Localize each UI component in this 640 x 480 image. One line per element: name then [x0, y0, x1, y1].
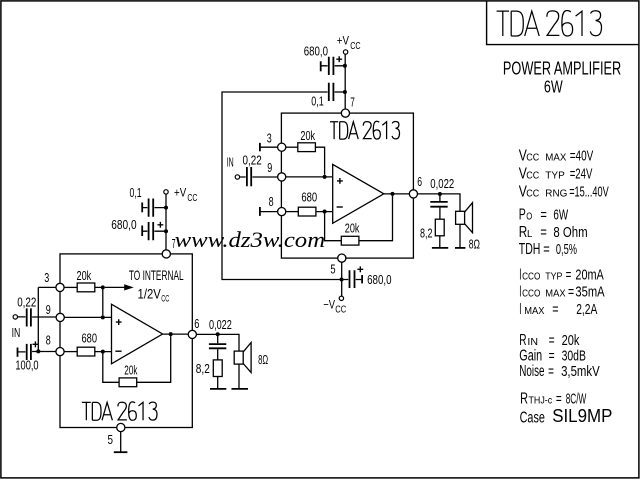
plus input mark upper: [337, 178, 343, 184]
wire R2 to -input: [316, 211, 332, 213]
junction zobel lower: [216, 332, 220, 336]
capacitor C7 680,0 plates: [149, 222, 154, 240]
svg-text:IN: IN: [12, 326, 21, 340]
wire pin8 to R2: [286, 211, 298, 213]
wire pin5 to -Vcc upper: [341, 262, 343, 296]
svg-text:680,0: 680,0: [367, 273, 391, 287]
junction zobel upper: [438, 192, 442, 196]
resistor R2 680 upper: [298, 207, 316, 216]
svg-text:PO=6W: PO=6W: [519, 206, 569, 223]
op-amp triangle lower: [112, 304, 163, 364]
resistor R8 8,2 lower: [213, 360, 222, 377]
wire pin3 stub lower: [38, 286, 56, 288]
svg-text:680,0: 680,0: [111, 218, 136, 232]
svg-text:0,22: 0,22: [243, 153, 262, 167]
capacitor C8 0,22 plates: [27, 308, 31, 326]
ground zobel lower: [210, 388, 226, 390]
minus input mark upper: [337, 206, 343, 208]
title text TDA2613: [497, 11, 602, 37]
ground pin5 lower: [114, 451, 128, 453]
wire 0,1 to -Vcc net: [222, 92, 340, 280]
svg-text:ICCOTYP=20mA: ICCOTYP=20mA: [519, 266, 604, 283]
wire R1 to +input: [315, 147, 324, 175]
svg-text:20k: 20k: [77, 269, 92, 283]
svg-text:VCCMAX=40V: VCCMAX=40V: [519, 147, 594, 164]
terminal +Vcc lower: [164, 190, 168, 194]
node pin 5 lower: [117, 423, 125, 431]
svg-text:CC: CC: [350, 40, 361, 52]
wire +Vcc rail upper: [344, 54, 346, 109]
svg-text:0,1: 0,1: [130, 186, 142, 200]
plus sign C9: [33, 341, 39, 347]
node pin 3 upper: [278, 143, 286, 151]
svg-text:7: 7: [172, 237, 176, 251]
wire pin3 down to cap junction: [37, 287, 39, 351]
op-amp U2 IC box TDA2613 lower: [60, 254, 192, 428]
svg-text:8: 8: [269, 195, 274, 209]
svg-text:5: 5: [108, 433, 114, 447]
plus sign C7: [158, 222, 164, 228]
svg-text:1/2V: 1/2V: [138, 286, 162, 302]
junction -input upper: [323, 210, 327, 214]
wire C4 to R4: [439, 208, 441, 220]
junction -Vcc net upper: [340, 278, 344, 282]
node pin 7 upper: [341, 109, 349, 117]
svg-text:RL=8 Ohm: RL=8 Ohm: [519, 224, 588, 241]
svg-text:9: 9: [267, 161, 272, 175]
junction +input upper: [323, 175, 327, 179]
speaker LS1 upper: [456, 203, 473, 233]
capacitor C6 0,1 plates: [149, 199, 154, 217]
wire pin3 stub upper: [260, 146, 277, 148]
svg-text:POWER AMPLIFIER: POWER AMPLIFIER: [503, 58, 621, 79]
wire C6 leads: [143, 207, 165, 209]
node pin 3 lower: [56, 283, 64, 291]
wire feedback upper: [325, 196, 393, 241]
plus input mark lower: [116, 319, 122, 325]
wire R4 to ground: [439, 236, 441, 248]
resistor R7 20k feedback lower: [119, 378, 137, 387]
wire pin5 ground lower: [120, 432, 122, 453]
junction bias arrow lower: [101, 285, 105, 289]
svg-text:ICCOMAX=35mA: ICCOMAX=35mA: [519, 284, 604, 301]
svg-text:20k: 20k: [124, 363, 138, 377]
resistor R1 20k upper: [298, 143, 316, 152]
svg-text:9: 9: [46, 303, 51, 317]
svg-text:680,0: 680,0: [304, 45, 328, 59]
capacitor C2 0,1 plates: [329, 83, 334, 101]
IC label TDA2613 upper: [330, 121, 400, 139]
svg-text:0,022: 0,022: [209, 318, 232, 332]
resistor R4 8,2 upper: [435, 219, 444, 236]
svg-text:Noise=3,5mkV: Noise=3,5mkV: [519, 363, 599, 380]
node pin 6 lower: [188, 330, 196, 338]
terminal tick C1: [320, 61, 322, 71]
junction -input lower: [101, 350, 105, 354]
wire R8 to ground: [217, 377, 219, 389]
svg-text:7: 7: [350, 95, 355, 109]
wire speaker to ground upper: [459, 224, 461, 248]
terminal input upper: [235, 175, 239, 179]
svg-text:8,2: 8,2: [196, 362, 210, 376]
ground speaker lower: [232, 388, 249, 390]
svg-text:+V: +V: [174, 186, 186, 200]
terminal +Vcc upper: [343, 50, 347, 54]
svg-text:TO INTERNAL: TO INTERNAL: [129, 267, 184, 283]
svg-text:8Ω: 8Ω: [469, 237, 480, 251]
wire R6 to -input lower: [95, 351, 111, 353]
wire speaker to ground lower: [238, 364, 240, 389]
wire to C4: [439, 194, 441, 201]
wire input to pin9 lower: [18, 316, 56, 318]
node pin 6 upper: [409, 190, 417, 198]
svg-text:+V: +V: [337, 34, 349, 48]
wire C2 right lead: [335, 91, 344, 93]
op-amp U1 IC box TDA2613 upper: [281, 113, 413, 258]
wire feedback lower: [103, 336, 171, 382]
capacitor C9 100,0 plates: [27, 344, 31, 360]
svg-text:6W: 6W: [544, 77, 563, 97]
capacitor C3 0,22 plates: [247, 167, 251, 186]
svg-text:6: 6: [194, 317, 199, 331]
junction 0,1/rail upper: [343, 90, 347, 94]
svg-text:0,1: 0,1: [311, 95, 324, 109]
svg-text:CC: CC: [187, 192, 197, 204]
node pin 7 lower: [162, 250, 170, 258]
svg-text:IN: IN: [227, 156, 234, 170]
capacitor C5 680,0 plates: [350, 270, 355, 288]
node pin 9 lower: [56, 313, 64, 321]
junction pin3/C9/pin8: [36, 349, 40, 353]
svg-text:0,022: 0,022: [430, 177, 454, 191]
wire C7 leads: [143, 230, 165, 232]
svg-text:Gain=30dB: Gain=30dB: [519, 347, 586, 364]
resistor R6 680 lower: [77, 347, 95, 356]
plus sign C5: [357, 266, 363, 272]
wire C5 leads: [344, 279, 362, 281]
terminal tick C9: [17, 348, 19, 357]
title box: [487, 1, 639, 45]
svg-text:8: 8: [46, 334, 51, 348]
IC label TDA2613 lower: [82, 402, 157, 420]
node pin 5 upper: [338, 254, 346, 262]
svg-text:20k: 20k: [345, 222, 360, 236]
svg-text:100,0: 100,0: [15, 359, 38, 373]
svg-text:5: 5: [330, 262, 335, 276]
junction +input lower: [101, 315, 105, 319]
svg-text:0,22: 0,22: [17, 295, 36, 309]
wire C10 to R8: [217, 349, 219, 360]
node pin 9 upper: [278, 173, 286, 181]
arrow to internal 1/2Vcc: [105, 286, 125, 288]
minus input mark lower: [115, 350, 121, 352]
svg-text:www.dz3w.com: www.dz3w.com: [175, 227, 326, 252]
wire C9 to pin8 lower: [18, 351, 56, 353]
terminal input lower: [13, 315, 17, 319]
wire opamp out to node6 lower: [163, 333, 189, 335]
svg-text:CC: CC: [335, 304, 346, 316]
node pin 8 lower: [56, 348, 64, 356]
wire node6 to speaker lower: [196, 334, 239, 351]
junction 0,1/rail lower: [164, 206, 168, 210]
junction output/feedback upper: [391, 192, 395, 196]
svg-text:TDH=0,5%: TDH=0,5%: [519, 241, 577, 258]
wire pin3 to R1: [286, 146, 298, 148]
resistor R3 20k feedback upper: [341, 236, 359, 245]
wire R5 to +input lower: [95, 287, 103, 315]
svg-text:CC: CC: [161, 294, 169, 305]
terminal -Vcc upper: [339, 296, 343, 300]
junction 680,0/rail lower: [164, 229, 168, 233]
wire pin8 stub upper: [260, 211, 277, 213]
capacitor C4 0,022 upper: [430, 202, 447, 207]
svg-text:3: 3: [44, 271, 49, 285]
wire pin3 to R5: [64, 286, 77, 288]
svg-text:CaseSIL9MP: CaseSIL9MP: [520, 406, 613, 427]
wire node6 to speaker upper: [418, 194, 461, 211]
svg-text:6: 6: [417, 175, 422, 189]
svg-text:3: 3: [267, 131, 272, 145]
junction output/feedback lower: [169, 332, 173, 336]
node pin 8 upper: [278, 208, 286, 216]
wire pin8 to R6: [64, 351, 77, 353]
wire +Vcc rail lower: [165, 194, 167, 250]
wire input to pin9 upper: [240, 176, 278, 178]
ground zobel upper: [432, 247, 448, 249]
op-amp triangle upper: [333, 164, 384, 223]
capacitor C1 680,0 plates: [329, 57, 334, 75]
svg-text:−V: −V: [323, 298, 335, 312]
plus sign C1: [336, 56, 342, 62]
wire to C10: [217, 334, 219, 343]
wire C1 leads: [321, 65, 344, 67]
ground speaker upper: [455, 247, 465, 249]
tick pin3 stub upper: [259, 143, 261, 151]
terminal tick C6: [141, 203, 143, 213]
speaker LS2 lower: [234, 343, 251, 373]
svg-text:VCCTYP=24V: VCCTYP=24V: [519, 166, 593, 183]
terminal tick C7: [141, 226, 143, 237]
junction 680,0/rail upper: [343, 64, 347, 68]
svg-text:20k: 20k: [300, 129, 315, 143]
svg-text:680: 680: [301, 191, 317, 205]
capacitor C10 0,022 lower: [209, 344, 226, 348]
wire opamp out to node6 upper: [384, 193, 409, 195]
tick pin8 stub upper: [259, 207, 261, 216]
svg-text:VCCRNG=15...40V: VCCRNG=15...40V: [519, 184, 609, 201]
terminal tick C5: [361, 275, 363, 283]
svg-text:8Ω: 8Ω: [258, 353, 268, 367]
svg-text:680: 680: [82, 332, 98, 346]
wire pin9 to +input lower: [64, 316, 111, 318]
resistor R5 20k lower: [77, 283, 95, 292]
svg-text:8,2: 8,2: [420, 227, 433, 241]
svg-text:IMAX=2,2A: IMAX=2,2A: [519, 301, 597, 318]
wire pin9 to +input: [286, 176, 332, 178]
